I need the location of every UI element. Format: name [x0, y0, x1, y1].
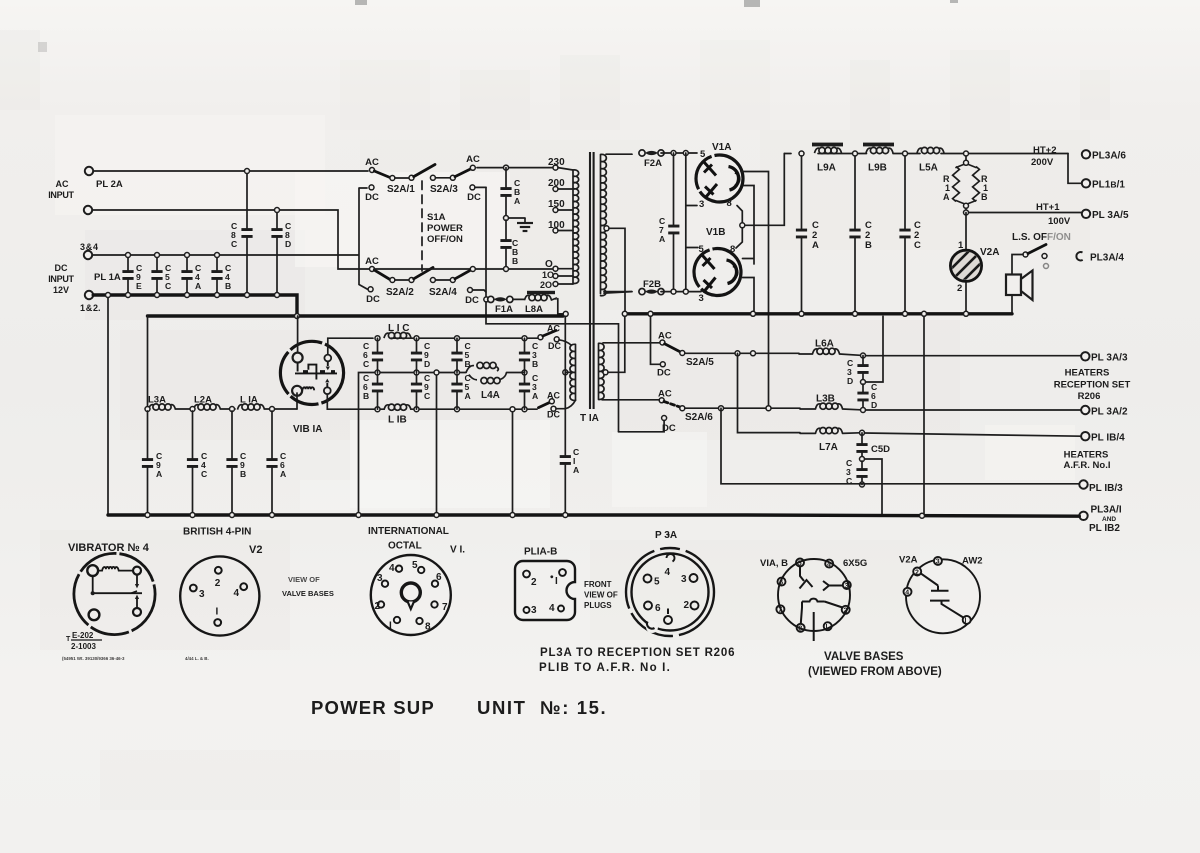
capacitor C4C — [192, 411, 194, 514]
capacitor C8C — [246, 171, 248, 295]
svg-text:DC: DC — [548, 341, 561, 351]
capacitor C6A — [271, 411, 273, 514]
svg-text:PLUGS: PLUGS — [584, 601, 612, 610]
heater centre tap — [603, 370, 608, 375]
vibrator envelope — [280, 341, 343, 404]
svg-text:A: A — [280, 469, 286, 479]
svg-text:L6A: L6A — [815, 339, 834, 350]
svg-text:3: 3 — [681, 574, 687, 585]
capacitor C6B — [377, 374, 379, 409]
svg-text:V1A: V1A — [712, 142, 731, 153]
svg-text:DC: DC — [657, 368, 671, 379]
vib coil — [98, 567, 133, 571]
svg-text:5: 5 — [798, 560, 802, 567]
svg-text:VALVE BASES: VALVE BASES — [824, 651, 904, 663]
svg-text:T IA: T IA — [580, 413, 599, 424]
LT centre tap to C1A column — [563, 370, 568, 375]
V1B internals — [703, 256, 738, 292]
wire row to PL3A/3 — [866, 355, 1082, 357]
svg-text:V2A: V2A — [980, 247, 999, 258]
svg-text:4: 4 — [665, 567, 671, 578]
svg-text:PL3A/I: PL3A/I — [1091, 505, 1122, 516]
junction C9A — [145, 513, 150, 518]
svg-text:8: 8 — [798, 626, 802, 633]
capacitor C2C — [904, 156, 906, 314]
junction C4C — [190, 513, 195, 518]
P3A pin 5 — [644, 575, 652, 583]
junction C2B — [853, 151, 858, 156]
svg-text:2: 2 — [215, 578, 221, 589]
winding T1A LT primary — [570, 344, 576, 400]
junction S2A/5 DC feed — [648, 311, 653, 316]
terminal PL3A/3 — [1081, 352, 1089, 360]
junction CBA-CBB mid — [504, 216, 509, 221]
junction C5D top — [860, 430, 865, 435]
svg-text:DC: DC — [465, 295, 479, 306]
svg-text:B: B — [865, 240, 872, 251]
earth bus — [108, 515, 1079, 516]
junction grid column C6 — [375, 336, 380, 341]
junction grid column C3 — [522, 336, 527, 341]
svg-text:B: B — [363, 391, 369, 401]
svg-text:3: 3 — [936, 559, 940, 566]
AW2 internals — [921, 573, 964, 617]
contact DC top — [554, 337, 559, 342]
V2 pin 2 — [215, 567, 222, 574]
junction L7A drop — [735, 351, 740, 356]
svg-text:1 & 2.: 1 & 2. — [80, 303, 101, 313]
svg-text:2: 2 — [531, 577, 537, 588]
octal base outline — [371, 555, 451, 635]
junction C6D bottom — [861, 408, 866, 413]
wire L1A to vibrator pin — [296, 393, 298, 409]
junction centre taps — [622, 311, 627, 316]
bottom rail — [350, 408, 537, 410]
svg-text:S2A/5: S2A/5 — [686, 357, 714, 368]
wire pin BR down to L1B rail — [327, 394, 350, 409]
vibrator internals — [295, 361, 337, 390]
svg-text:2: 2 — [915, 569, 919, 576]
vibrator pin bottom-right — [324, 387, 331, 394]
svg-text:AW2: AW2 — [962, 556, 983, 567]
AW2 pins — [904, 557, 971, 625]
svg-text:B: B — [240, 469, 246, 479]
wire S2A/6 output row — [685, 407, 800, 409]
svg-text:PL IB2: PL IB2 — [1089, 523, 1120, 534]
junction C2C — [903, 151, 908, 156]
wire mid stub to bus — [359, 373, 378, 515]
switch S2A/3 — [430, 165, 475, 180]
contact DC S2A/2 — [368, 287, 373, 292]
P3A pin 1 — [667, 609, 669, 615]
junction C2A bus — [799, 311, 804, 316]
svg-text:HT+1: HT+1 — [1036, 202, 1060, 213]
6X5G base outline — [778, 559, 850, 631]
svg-text:8: 8 — [425, 622, 431, 633]
svg-text:AC: AC — [658, 331, 672, 342]
wire AC line 2 through run — [374, 268, 553, 270]
svg-text:5: 5 — [700, 149, 706, 160]
svg-text:4: 4 — [549, 603, 555, 614]
wire L3A feed from chassis — [147, 316, 149, 409]
svg-text:INPUT: INPUT — [48, 190, 74, 200]
svg-text:F1A: F1A — [495, 304, 513, 315]
svg-text:3: 3 — [531, 605, 537, 616]
capacitor C3D — [862, 356, 864, 383]
wire drop to bottom bus — [107, 295, 109, 515]
junction mid drop — [434, 370, 439, 375]
tap 20 — [553, 282, 558, 287]
svg-text:A: A — [943, 192, 950, 202]
vib armature tick — [93, 591, 137, 593]
svg-text:POWER: POWER — [427, 223, 463, 234]
svg-text:D: D — [847, 376, 853, 386]
choke L1C — [384, 332, 411, 338]
svg-text:P 3A: P 3A — [655, 530, 677, 541]
svg-text:4: 4 — [234, 588, 240, 599]
core T1A — [590, 152, 594, 409]
junction bus-C1A — [563, 311, 568, 316]
wire row to PL3A/2 — [866, 409, 1082, 411]
svg-text:C: C — [914, 240, 921, 251]
switch S2A/6 — [659, 398, 664, 403]
svg-text:PL 3A/5: PL 3A/5 — [1092, 210, 1129, 221]
svg-text:VIEW OF: VIEW OF — [288, 575, 320, 584]
svg-text:D: D — [424, 359, 430, 369]
terminal PL3A/6 — [1082, 150, 1090, 158]
svg-text:5: 5 — [654, 577, 660, 588]
P3A pin 4 top — [667, 554, 675, 561]
wire branch PL1B/1 — [1068, 154, 1082, 184]
vib pin BL — [89, 609, 100, 620]
PL1AB pin 3 — [524, 607, 530, 613]
svg-text:PL IB/3: PL IB/3 — [1089, 483, 1123, 494]
capacitor C8D — [276, 210, 278, 295]
AW2 base outline — [906, 559, 980, 633]
svg-text:OCTAL: OCTAL — [388, 541, 422, 552]
svg-text:7: 7 — [442, 602, 448, 613]
svg-text:I: I — [555, 576, 558, 587]
svg-text:DC: DC — [55, 263, 68, 273]
svg-text:INPUT: INPUT — [48, 274, 74, 284]
contact DC S2A/1 — [369, 185, 374, 190]
tap 10 — [553, 274, 558, 279]
wire HV bottom lead — [604, 292, 632, 294]
svg-text:VALVE BASES: VALVE BASES — [282, 589, 334, 598]
svg-text:DC: DC — [547, 410, 560, 420]
chassis bus right section — [625, 312, 1012, 315]
junction C6 mid — [356, 513, 361, 518]
junction C2C bus — [903, 311, 908, 316]
switch S2A/2 — [370, 267, 434, 283]
junction C1A — [563, 513, 568, 518]
V2 base outline — [180, 556, 259, 635]
capacitor C9E — [127, 255, 129, 295]
choke L6A — [813, 348, 840, 354]
resistor pair R1A R1B — [964, 151, 969, 156]
wire L8A output to chassis bus — [558, 299, 563, 314]
wire to ground — [509, 217, 526, 219]
valve V1B envelope — [694, 249, 741, 296]
junction cathode drop — [751, 311, 756, 316]
junction C2A — [799, 151, 804, 156]
junction C5D-C3C — [860, 457, 865, 462]
choke L1A — [238, 404, 265, 410]
svg-text:A: A — [465, 391, 471, 401]
choke L9B core bar — [863, 143, 894, 147]
contact DC S2A/4 — [468, 288, 473, 293]
svg-text:VIEW OF: VIEW OF — [584, 591, 618, 600]
svg-text:S2A/1: S2A/1 — [387, 184, 415, 195]
svg-text:DC: DC — [366, 294, 380, 305]
fuse F2A — [631, 153, 633, 155]
svg-text:A: A — [532, 391, 538, 401]
capacitor C4A — [186, 255, 188, 295]
junction earth col — [920, 513, 925, 518]
svg-text:PL1B/1: PL1B/1 — [1092, 180, 1125, 191]
svg-text:C: C — [165, 281, 171, 291]
svg-text:L9A: L9A — [817, 163, 836, 174]
svg-text:V I.: V I. — [450, 545, 465, 556]
svg-text:8: 8 — [730, 244, 735, 255]
svg-text:D: D — [285, 239, 291, 249]
wire DC negative heavy line — [93, 295, 297, 316]
svg-text:R206: R206 — [1078, 391, 1101, 402]
capacitor C9A — [147, 411, 149, 514]
svg-text:L8A: L8A — [525, 304, 543, 315]
junction cathode column — [751, 351, 756, 356]
svg-text:4: 4 — [389, 563, 395, 574]
armature contact ticks — [303, 370, 335, 372]
mid rail — [378, 372, 467, 374]
terminal PL1B/1 — [1082, 179, 1090, 187]
vib arrows — [135, 584, 139, 599]
capacitor C9C — [416, 374, 418, 409]
junction C3D-C6D — [861, 380, 866, 385]
svg-text:1: 1 — [958, 240, 964, 251]
svg-text:C: C — [231, 239, 237, 249]
svg-text:A: A — [514, 196, 520, 206]
wire row to PL1B/4 — [865, 433, 1082, 436]
svg-text:6: 6 — [779, 579, 783, 586]
wire pin TL to bus — [297, 316, 299, 353]
svg-text:A.F.R. No.I: A.F.R. No.I — [1064, 460, 1111, 471]
svg-text:I: I — [216, 607, 219, 618]
svg-text:B: B — [981, 192, 988, 202]
wire bottom rail drop — [512, 409, 514, 514]
svg-text:S2A/2: S2A/2 — [386, 287, 414, 298]
winding T1A heater secondary — [599, 343, 605, 399]
wire PL1B/3 row — [721, 408, 1079, 484]
svg-text:5: 5 — [699, 244, 705, 255]
junction C3C bottom — [860, 482, 865, 487]
svg-text:L IA: L IA — [240, 395, 258, 406]
terminal AC input lower — [84, 206, 92, 214]
wire C3 mid to bus — [866, 316, 884, 382]
svg-text:I: I — [389, 621, 392, 632]
junction CBB bottom — [504, 267, 509, 272]
svg-text:L.S. OFF/ON: L.S. OFF/ON — [1012, 232, 1071, 243]
choke L7A — [816, 428, 843, 434]
svg-text:PLIA-B: PLIA-B — [524, 547, 557, 558]
6X5G internals — [800, 567, 844, 642]
paper background — [0, 0, 1, 1]
svg-text:B: B — [512, 256, 518, 266]
choke L1B — [384, 404, 411, 410]
capacitor C3C — [861, 461, 863, 485]
choke L8A core bar — [527, 291, 555, 294]
svg-text:L5A: L5A — [919, 163, 938, 174]
svg-text:PLIB TO A.F.R. No I.: PLIB TO A.F.R. No I. — [539, 662, 671, 674]
PL1AB pin 1 — [550, 575, 553, 578]
svg-text:PL3A/4: PL3A/4 — [1090, 253, 1124, 264]
svg-text:A: A — [812, 240, 819, 251]
P3A outer ring — [626, 548, 714, 636]
svg-text:POWER SUP: POWER SUP — [311, 697, 435, 718]
terminal PL2A top — [85, 167, 93, 175]
wire S2A/3 DC bracket down to DC feeder — [486, 187, 619, 431]
svg-text:OFF/ON: OFF/ON — [427, 234, 463, 245]
switch LS on-off — [1023, 252, 1028, 257]
svg-text:2: 2 — [844, 608, 848, 615]
svg-text:2-1003: 2-1003 — [71, 642, 96, 651]
svg-text:C: C — [424, 391, 430, 401]
V2 pin 3 — [190, 585, 197, 592]
svg-text:100V: 100V — [1048, 216, 1071, 227]
svg-text:UNIT №: 15.: UNIT №: 15. — [477, 697, 607, 718]
choke L4A double winding — [466, 362, 507, 383]
svg-text:VIBRATOR № 4: VIBRATOR № 4 — [68, 542, 150, 554]
junction HT1 — [964, 210, 969, 215]
vibrator base outline — [74, 553, 155, 634]
winding T1A HV secondary — [601, 154, 607, 295]
junction — [145, 407, 150, 412]
junction C6A — [270, 513, 275, 518]
winding T1A primary tapped — [573, 170, 579, 284]
vibrator pin top-right — [324, 355, 331, 362]
svg-text:V1B: V1B — [706, 227, 725, 238]
junction cathode col row6 — [766, 406, 771, 411]
svg-text:2: 2 — [684, 600, 690, 611]
junction grid column C5 — [455, 336, 460, 341]
svg-text:O: O — [545, 259, 553, 270]
svg-text:AC: AC — [56, 179, 69, 189]
svg-text:C: C — [363, 359, 369, 369]
svg-text:3: 3 — [845, 583, 849, 590]
svg-text:4: 4 — [905, 590, 909, 597]
vib pin TL — [87, 565, 98, 576]
svg-text:FRONT: FRONT — [584, 580, 612, 589]
svg-text:VIB IA: VIB IA — [293, 424, 322, 435]
tap 150 — [553, 208, 558, 213]
svg-text:AC: AC — [466, 154, 480, 165]
svg-text:5: 5 — [412, 560, 418, 571]
svg-text:B: B — [225, 281, 231, 291]
choke L3A — [149, 404, 176, 410]
lamp V2A — [965, 213, 967, 314]
svg-text:HEATERS: HEATERS — [1065, 368, 1110, 379]
svg-text:INTERNATIONAL: INTERNATIONAL — [368, 526, 449, 537]
capacitor C3B — [524, 338, 526, 372]
contact DC S2A/3 — [470, 185, 475, 190]
switch S2A/1 — [370, 165, 436, 181]
wire AC line 2 — [92, 210, 369, 269]
svg-text:L3B: L3B — [816, 394, 835, 405]
junction C2B bus — [853, 311, 858, 316]
wire node A to plates — [686, 153, 698, 292]
wire cathode output to HT rail — [736, 154, 784, 249]
wire mid rail right — [521, 372, 525, 374]
speaker — [1006, 275, 1021, 296]
junction cathodes — [740, 223, 745, 228]
svg-text:6: 6 — [655, 603, 661, 614]
capacitor C2B — [854, 156, 856, 314]
PL1A-B connector body — [515, 561, 575, 620]
vibrator pin bottom-left — [292, 386, 302, 396]
tap 0 — [553, 266, 558, 271]
vibrator contact arrows — [325, 367, 330, 383]
svg-text:PL3A/6: PL3A/6 — [1092, 151, 1126, 162]
svg-text:C5D: C5D — [871, 444, 890, 455]
svg-text:2O: 2O — [540, 280, 552, 290]
tap 100 — [553, 228, 558, 233]
vibrator pin top-left — [293, 353, 303, 363]
svg-text:F2B: F2B — [643, 279, 661, 290]
svg-text:PL 3A/2: PL 3A/2 — [1091, 407, 1128, 418]
svg-text:AC: AC — [365, 157, 379, 168]
svg-text:PL 2A: PL 2A — [96, 179, 123, 190]
terminal PL3A/2 — [1081, 406, 1089, 414]
junction C3D top — [861, 353, 866, 358]
contact DC S2A/6 — [662, 416, 667, 421]
choke L9B — [866, 147, 893, 153]
capacitor C5A — [456, 374, 458, 409]
chassis bus left section — [148, 314, 564, 317]
V1A internals — [704, 162, 740, 198]
capacitor C6D — [862, 384, 864, 410]
wire S2A/5 output row — [685, 352, 799, 354]
svg-text:I: I — [965, 618, 967, 625]
svg-text:PL 3A/3: PL 3A/3 — [1091, 353, 1128, 364]
terminal PL3A/1 and PL1B2 — [1079, 512, 1087, 520]
svg-text:L9B: L9B — [868, 163, 887, 174]
svg-text:(54951 Wt. 39130/9366 36-46: (54951 Wt. 39130/9366 36-46-3 — [62, 656, 125, 661]
svg-text:(VIEWED FROM ABOVE): (VIEWED FROM ABOVE) — [808, 666, 942, 678]
terminal DC 3&4 — [84, 251, 92, 259]
V2 pin 4 — [240, 583, 247, 590]
svg-text:A: A — [573, 465, 579, 475]
wire heater bottom lead to S2A/6 AC — [602, 399, 659, 401]
capacitor C4B — [216, 255, 218, 295]
wire speaker to bus — [1011, 295, 1013, 314]
svg-text:A: A — [195, 281, 201, 291]
svg-text:S2A/6: S2A/6 — [685, 412, 713, 423]
switch S2A/4 — [430, 267, 475, 283]
wire earth column — [923, 316, 925, 514]
capacitor C5C — [156, 255, 158, 295]
choke L9A — [815, 147, 842, 153]
svg-text:6X5G: 6X5G — [843, 558, 867, 569]
junction PL1B3 drop — [719, 406, 724, 411]
capacitor C1A column — [564, 316, 566, 514]
svg-text:RECEPTION SET: RECEPTION SET — [1054, 380, 1131, 391]
wire HV top lead — [606, 153, 632, 155]
choke L9A core bar — [812, 143, 843, 147]
vib pin BR — [133, 608, 141, 616]
svg-text:3: 3 — [699, 293, 704, 304]
wire L7A row — [738, 353, 801, 432]
wire pin TR up to L1C rail — [328, 338, 350, 354]
